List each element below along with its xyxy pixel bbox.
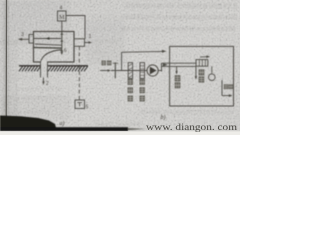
box 5 (transducer T) [75,100,85,109]
cooler label 冷却器 [140,79,145,85]
grille outlet arrow [200,56,207,58]
recirculation down-leg [121,52,123,70]
wire M to right then down to cylinder [66,16,85,39]
supply duct double line [162,62,197,64]
supply flow arrow [163,63,168,66]
wire M down to tank [61,21,63,32]
temperature sensor [211,66,213,73]
supply-air label 送风 [199,69,205,75]
tank body [34,32,75,63]
arrow 2 (drain) [43,78,45,83]
scan gutter line at left edge [5,0,7,128]
svg-text:6: 6 [64,48,67,54]
inner line 2 [35,44,62,45]
left connector flange [29,35,34,44]
supply grille [196,60,208,67]
fan [147,65,158,76]
exhaust label 排风 [224,84,228,89]
drain pipe through ground [40,62,42,78]
inlet damper [114,63,116,79]
exhaust path [221,80,223,96]
filter label 过滤器 [128,79,133,85]
motor M box [58,11,67,21]
svg-text:5: 5 [86,104,89,110]
white strip at very bottom [0,131,240,135]
valve stem dashed centerline with arrow, node 6 [61,32,63,53]
dashed centerline down to box 5 [78,46,80,100]
svg-text:a): a) [60,120,65,127]
inner heavy line [34,47,62,50]
svg-text:3: 3 [21,32,24,38]
return-air label 回风 [175,75,181,81]
ground line with hatching [19,65,41,67]
svg-text:www. diangon. com: www. diangon. com [146,122,237,132]
black scan bar along bottom [0,127,128,131]
recirculation top line with arrow [122,50,163,53]
return-air leg with up arrow [176,66,178,71]
svg-text:2: 2 [46,81,49,87]
cooler element [140,63,145,79]
inner flow line with left arrow [34,38,61,40]
pipe opening in tank bottom [41,61,47,63]
ghost bleed-through text rows [0,3,238,128]
supply-air down arrow [195,67,197,77]
exhaust arrow [222,95,230,97]
room (conditioned space) [170,46,234,106]
svg-text:M: M [59,14,65,21]
arrow 1 (output shaft) [85,42,90,44]
black scan blob bottom-left [0,116,146,134]
cylinder on right side of tank [74,39,85,47]
arrow 3 (outflow left) [19,38,29,40]
fresh-air arrow [100,70,109,72]
svg-text:b): b) [161,114,166,121]
svg-text:1: 1 [89,34,92,40]
main duct line [111,70,147,72]
filter element [128,63,132,79]
fresh-air label [102,61,106,66]
paper background [0,0,240,135]
fan outlet jog [159,70,162,72]
curved pipe inside tank [41,50,62,63]
